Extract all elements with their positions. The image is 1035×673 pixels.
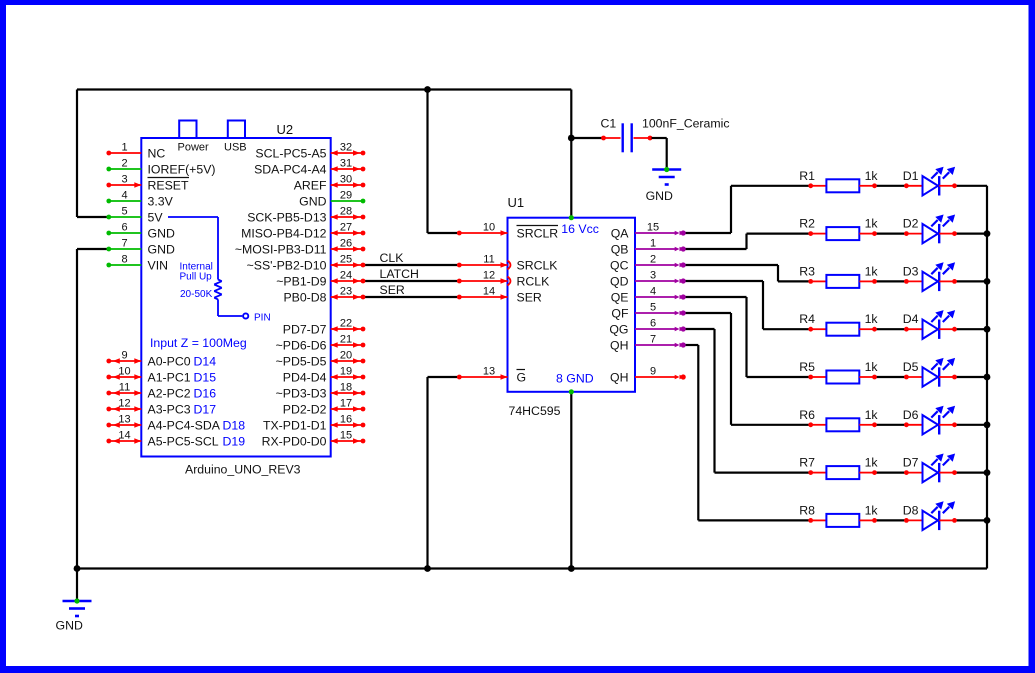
svg-text:D17: D17 xyxy=(194,403,217,417)
svg-text:QA: QA xyxy=(611,227,630,241)
svg-text:~MOSI-PB3-D11: ~MOSI-PB3-D11 xyxy=(235,243,327,257)
svg-text:USB: USB xyxy=(224,142,247,154)
U1 pin 2 QC output xyxy=(610,254,686,273)
junction right rail row 2 xyxy=(984,230,991,237)
svg-text:QH: QH xyxy=(610,371,628,385)
U2 pin 30 AREF xyxy=(294,174,366,193)
U2 pin 6 GND xyxy=(106,222,175,241)
svg-text:16 Vcc: 16 Vcc xyxy=(561,222,599,236)
svg-text:D7: D7 xyxy=(903,456,919,470)
U2 pin 11 A2-PC2 D16 xyxy=(106,382,216,401)
svg-text:D5: D5 xyxy=(903,360,919,374)
svg-text:9: 9 xyxy=(650,366,656,378)
svg-text:D16: D16 xyxy=(194,387,217,401)
wire net LATCH xyxy=(363,280,459,282)
wire GND bottom rail xyxy=(77,567,987,569)
svg-text:QB: QB xyxy=(611,243,629,257)
svg-text:QE: QE xyxy=(611,291,629,305)
U2 pin 4 3.3V xyxy=(106,190,173,209)
wire LED D1 cathode to right rail xyxy=(955,185,988,187)
svg-text:31: 31 xyxy=(340,158,352,170)
wire QC to LED row 3 xyxy=(683,265,811,281)
wire resistor R1 to LED D1 xyxy=(875,185,907,187)
svg-text:Input Z = 100Meg: Input Z = 100Meg xyxy=(150,336,247,350)
svg-text:SER: SER xyxy=(517,291,542,305)
svg-text:14: 14 xyxy=(483,286,495,298)
svg-text:QC: QC xyxy=(610,259,629,273)
svg-text:GND: GND xyxy=(299,195,326,209)
U2 internal pull-up resistor 20-50K and PIN xyxy=(168,217,271,324)
svg-text:21: 21 xyxy=(340,334,352,346)
svg-text:RESET: RESET xyxy=(148,179,189,193)
svg-text:9: 9 xyxy=(121,350,127,362)
svg-text:5: 5 xyxy=(650,302,656,314)
svg-text:RX-PD0-D0: RX-PD0-D0 xyxy=(262,435,327,449)
svg-text:GND: GND xyxy=(56,619,83,633)
junction right rail row 3 xyxy=(984,278,991,285)
svg-text:D15: D15 xyxy=(194,371,217,385)
svg-text:LATCH: LATCH xyxy=(380,267,419,281)
svg-text:20-50K: 20-50K xyxy=(180,289,213,300)
svg-text:7: 7 xyxy=(650,334,656,346)
svg-text:D18: D18 xyxy=(223,419,246,433)
U1 pin 14 SER xyxy=(457,286,542,305)
resistor R4 1k xyxy=(799,312,878,336)
wire 5V top rail horizontal xyxy=(77,88,571,90)
svg-text:19: 19 xyxy=(340,366,352,378)
U2 pin 21 ~PD6-D6 xyxy=(276,334,366,353)
U1 pin 11 SRCLK xyxy=(457,254,558,273)
svg-text:27: 27 xyxy=(340,222,352,234)
svg-text:PIN: PIN xyxy=(254,313,271,324)
svg-text:R8: R8 xyxy=(799,503,815,517)
svg-text:GND: GND xyxy=(646,189,673,203)
svg-text:U2: U2 xyxy=(277,122,294,137)
svg-text:1k: 1k xyxy=(865,217,879,231)
U2 pin 28 SCK-PB5-D13 xyxy=(247,206,365,225)
resistor R3 1k xyxy=(799,264,878,288)
wire C1 right lead to ground xyxy=(652,138,667,170)
wire 5V drop to C1 junction xyxy=(570,90,572,139)
resistor R5 1k xyxy=(799,360,878,384)
wire LED D7 cathode to right rail xyxy=(955,472,988,474)
svg-text:3.3V: 3.3V xyxy=(148,195,174,209)
svg-text:A1-PC1: A1-PC1 xyxy=(148,371,191,385)
svg-text:SCK-PB5-D13: SCK-PB5-D13 xyxy=(247,211,326,225)
wire resistor R6 to LED D6 xyxy=(875,424,907,426)
junction 5V top rail / SRCLR branch xyxy=(424,86,431,93)
svg-text:~PB1-D9: ~PB1-D9 xyxy=(276,275,326,289)
LED D2 xyxy=(903,215,957,244)
wire U1 pin 13 G to bottom rail xyxy=(428,377,460,569)
U2 pin 10 A1-PC1 D15 xyxy=(106,366,216,385)
svg-text:2: 2 xyxy=(121,158,127,170)
junction GND rail / U1 pin 8 branch xyxy=(568,565,575,572)
svg-text:IOREF(+5V): IOREF(+5V) xyxy=(148,163,216,177)
wire GND left vertical down xyxy=(76,249,78,569)
svg-text:32: 32 xyxy=(340,142,352,154)
wire 5V branch down to U1 pin 10 xyxy=(428,90,460,234)
svg-text:D8: D8 xyxy=(903,503,919,517)
wire QG to LED row 7 xyxy=(683,329,811,473)
svg-text:1k: 1k xyxy=(865,169,879,183)
U1 pin 13 G xyxy=(457,366,526,385)
wire QB to LED row 2 xyxy=(683,234,811,249)
svg-text:1k: 1k xyxy=(865,503,879,517)
junction right rail row 4 xyxy=(984,326,991,333)
U2 pin 7 GND xyxy=(106,238,175,257)
U2 pin 8 VIN xyxy=(106,254,168,273)
svg-text:VIN: VIN xyxy=(148,259,169,273)
svg-text:25: 25 xyxy=(340,254,352,266)
svg-text:D1: D1 xyxy=(903,169,919,183)
wire 5V left rail vertical xyxy=(76,90,78,218)
svg-text:A4-PC4-SDA: A4-PC4-SDA xyxy=(148,419,221,433)
svg-text:6: 6 xyxy=(650,318,656,330)
svg-text:D6: D6 xyxy=(903,408,919,422)
svg-text:SCL-PC5-A5: SCL-PC5-A5 xyxy=(255,147,326,161)
resistor R2 1k xyxy=(799,217,878,241)
U2 pin 14 A5-PC5-SCL D19 xyxy=(106,430,245,449)
wire net CLK xyxy=(363,264,459,266)
U2 pin 27 MISO-PB4-D12 xyxy=(241,222,365,241)
svg-text:PB0-D8: PB0-D8 xyxy=(283,291,326,305)
svg-text:24: 24 xyxy=(340,270,352,282)
svg-text:SER: SER xyxy=(380,283,405,297)
svg-text:30: 30 xyxy=(340,174,352,186)
U2 pin 20 ~PD5-D5 xyxy=(276,350,366,369)
wire LED D6 cathode to right rail xyxy=(955,424,988,426)
U1 pin 1 QB output xyxy=(611,238,686,257)
svg-text:QG: QG xyxy=(609,323,628,337)
IC U2 Arduino_UNO_REV3 body xyxy=(141,121,330,457)
LED D1 xyxy=(903,167,957,196)
svg-text:PD4-D4: PD4-D4 xyxy=(283,371,327,385)
U1 pin 3 QD output xyxy=(610,270,686,289)
U2 pin 25 ~SS'-PB2-D10 xyxy=(247,254,366,273)
svg-text:A3-PC3: A3-PC3 xyxy=(148,403,191,417)
svg-text:1k: 1k xyxy=(865,360,879,374)
svg-text:10: 10 xyxy=(118,366,130,378)
resistor R8 1k xyxy=(799,503,878,527)
svg-text:PD2-D2: PD2-D2 xyxy=(283,403,327,417)
U2 pin 13 A4-PC4-SDA D18 xyxy=(106,414,245,433)
svg-text:22: 22 xyxy=(340,318,352,330)
svg-text:R5: R5 xyxy=(799,360,815,374)
svg-text:15: 15 xyxy=(647,222,659,234)
svg-text:~PD3-D3: ~PD3-D3 xyxy=(276,387,327,401)
LED D6 xyxy=(903,406,957,435)
U1 pin 12 RCLK xyxy=(457,270,550,289)
U1 pin 6 QG output xyxy=(609,318,685,337)
U2 pin 24 ~PB1-D9 xyxy=(276,270,365,289)
svg-text:GND: GND xyxy=(148,227,175,241)
svg-text:SRCLR: SRCLR xyxy=(517,227,559,241)
U2 pin 17 PD2-D2 xyxy=(283,398,366,417)
svg-text:11: 11 xyxy=(119,382,130,394)
U2 pin 5 5V xyxy=(106,206,163,225)
svg-text:1k: 1k xyxy=(865,312,879,326)
junction right rail row 7 xyxy=(984,469,991,476)
svg-text:G: G xyxy=(517,371,527,385)
svg-text:AREF: AREF xyxy=(294,179,327,193)
wire resistor R5 to LED D5 xyxy=(875,376,907,378)
wire resistor R3 to LED D3 xyxy=(875,280,907,282)
junction right rail row 8 xyxy=(984,517,991,524)
svg-text:14: 14 xyxy=(118,430,130,442)
U2 pin 19 PD4-D4 xyxy=(283,366,366,385)
wire QF to LED row 6 xyxy=(683,313,811,425)
capacitor C1 100nF_Ceramic xyxy=(601,123,652,152)
ground symbol bottom left xyxy=(56,598,92,632)
svg-text:16: 16 xyxy=(340,414,352,426)
svg-text:R4: R4 xyxy=(799,312,815,326)
svg-text:13: 13 xyxy=(118,414,130,426)
svg-text:74HC595: 74HC595 xyxy=(509,404,561,418)
svg-text:10: 10 xyxy=(483,222,495,234)
junction right rail row 5 xyxy=(984,374,991,381)
wire resistor R7 to LED D7 xyxy=(875,472,907,474)
svg-text:1: 1 xyxy=(650,238,656,250)
svg-text:5V: 5V xyxy=(148,211,164,225)
svg-text:MISO-PB4-D12: MISO-PB4-D12 xyxy=(241,227,327,241)
svg-text:D4: D4 xyxy=(903,312,919,326)
junction 5V / C1 node xyxy=(568,135,575,142)
svg-text:28: 28 xyxy=(340,206,352,218)
U2 pin 22 PD7-D7 xyxy=(283,318,366,337)
svg-text:1k: 1k xyxy=(865,264,879,278)
wire resistor R4 to LED D4 xyxy=(875,328,907,330)
svg-text:12: 12 xyxy=(483,270,495,282)
U2 pin 29 GND xyxy=(299,190,365,209)
svg-text:D19: D19 xyxy=(223,435,246,449)
U2 pin 18 ~PD3-D3 xyxy=(276,382,366,401)
svg-text:7: 7 xyxy=(121,238,127,250)
svg-text:C1: C1 xyxy=(601,117,617,131)
U2 pin 1 NC xyxy=(106,142,165,161)
svg-text:29: 29 xyxy=(340,190,352,202)
svg-text:1: 1 xyxy=(121,142,127,154)
wire LED D2 cathode to right rail xyxy=(955,233,988,235)
wire LED D8 cathode to right rail xyxy=(955,519,988,521)
U2 pin 9 A0-PC0 D14 xyxy=(106,350,216,369)
svg-text:PD7-D7: PD7-D7 xyxy=(283,323,327,337)
wire QD to LED row 4 xyxy=(683,281,811,329)
svg-text:18: 18 xyxy=(340,382,352,394)
svg-text:4: 4 xyxy=(650,286,656,298)
wire QE to LED row 5 xyxy=(683,297,811,377)
svg-text:5: 5 xyxy=(121,206,127,218)
U1 pin 15 QA output xyxy=(611,222,686,241)
svg-text:R1: R1 xyxy=(799,169,815,183)
svg-text:D2: D2 xyxy=(903,217,919,231)
ground symbol at C1 xyxy=(646,167,682,203)
svg-text:15: 15 xyxy=(340,430,352,442)
svg-text:QH: QH xyxy=(610,339,628,353)
svg-text:R7: R7 xyxy=(799,456,815,470)
svg-text:TX-PD1-D1: TX-PD1-D1 xyxy=(263,419,327,433)
U1 pin 9 QH' serial out xyxy=(610,366,686,385)
wire LED D4 cathode to right rail xyxy=(955,328,988,330)
LED D7 xyxy=(903,454,957,483)
LED D5 xyxy=(903,358,957,387)
svg-text:CLK: CLK xyxy=(380,251,405,265)
wire GND from U2 pin 7 to left rail xyxy=(77,248,108,250)
svg-text:NC: NC xyxy=(148,147,166,161)
U2 pin 15 RX-PD0-D0 xyxy=(262,430,366,449)
wire QA to LED row 1 xyxy=(683,186,811,233)
wire GND stub to ground symbol xyxy=(76,569,78,602)
resistor R6 1k xyxy=(799,408,878,432)
svg-text:Pull Up: Pull Up xyxy=(180,272,213,283)
resistor R1 1k xyxy=(799,169,878,193)
svg-text:QD: QD xyxy=(610,275,629,289)
junction GND bottom-left xyxy=(74,565,81,572)
U2 pin 32 SCL-PC5-A5 xyxy=(255,142,365,161)
svg-text:13: 13 xyxy=(483,366,495,378)
svg-text:R2: R2 xyxy=(799,217,815,231)
U1 pin 7 QH output xyxy=(610,334,686,353)
junction GND rail / U1 pin 13 branch xyxy=(424,565,431,572)
wire LED D5 cathode to right rail xyxy=(955,376,988,378)
svg-text:R3: R3 xyxy=(799,264,815,278)
U2 pin 12 A3-PC3 D17 xyxy=(106,398,216,417)
wire GND right rail vertical xyxy=(986,186,988,569)
LED D4 xyxy=(903,310,957,339)
svg-text:SRCLK: SRCLK xyxy=(517,259,559,273)
U1 pin 10 SRCLR xyxy=(457,222,558,241)
junction right rail row 6 xyxy=(984,421,991,428)
wire net SER xyxy=(363,296,459,298)
svg-text:1k: 1k xyxy=(865,408,879,422)
svg-text:U1: U1 xyxy=(508,195,525,210)
svg-text:8 GND: 8 GND xyxy=(556,372,594,386)
svg-text:GND: GND xyxy=(148,243,175,257)
resistor R7 1k xyxy=(799,456,878,480)
svg-text:20: 20 xyxy=(340,350,352,362)
U1 pin 5 QF output xyxy=(611,302,685,321)
wire resistor R8 to LED D8 xyxy=(875,519,907,521)
svg-text:12: 12 xyxy=(118,398,130,410)
svg-text:Arduino_UNO_REV3: Arduino_UNO_REV3 xyxy=(185,463,301,477)
svg-text:D14: D14 xyxy=(194,355,217,369)
wire 5V junction to U1 Vcc pin 16 xyxy=(570,138,572,218)
svg-text:26: 26 xyxy=(340,238,352,250)
svg-text:~PD5-D5: ~PD5-D5 xyxy=(276,355,327,369)
U2 pin 23 PB0-D8 xyxy=(283,286,365,305)
svg-text:3: 3 xyxy=(121,174,127,186)
U2 pin 3 RESET xyxy=(106,174,189,193)
svg-text:SDA-PC4-A4: SDA-PC4-A4 xyxy=(254,163,327,177)
U2 pin 26 ~MOSI-PB3-D11 xyxy=(235,238,366,257)
svg-text:D3: D3 xyxy=(903,264,919,278)
svg-text:23: 23 xyxy=(340,286,352,298)
wire C1 left lead xyxy=(571,137,602,139)
svg-text:QF: QF xyxy=(611,307,629,321)
svg-text:4: 4 xyxy=(121,190,127,202)
svg-text:11: 11 xyxy=(483,254,494,266)
svg-text:RCLK: RCLK xyxy=(517,275,551,289)
wire LED D3 cathode to right rail xyxy=(955,280,988,282)
svg-text:~SS'-PB2-D10: ~SS'-PB2-D10 xyxy=(247,259,327,273)
svg-text:A0-PC0: A0-PC0 xyxy=(148,355,191,369)
IC U1 74HC595 body xyxy=(508,218,636,392)
U1 pin 4 QE output xyxy=(611,286,686,305)
svg-text:8: 8 xyxy=(121,254,127,266)
U1 pin 8 GND xyxy=(556,372,594,395)
svg-text:2: 2 xyxy=(650,254,656,266)
svg-text:A2-PC2: A2-PC2 xyxy=(148,387,191,401)
LED D3 xyxy=(903,262,957,291)
wire QH to LED row 8 xyxy=(683,345,811,520)
svg-text:A5-PC5-SCL: A5-PC5-SCL xyxy=(148,435,219,449)
svg-text:1k: 1k xyxy=(865,456,879,470)
svg-text:6: 6 xyxy=(121,222,127,234)
U2 pin 16 TX-PD1-D1 xyxy=(263,414,365,433)
LED D8 xyxy=(903,501,957,530)
wire U1 GND pin 8 down to rail xyxy=(570,392,572,569)
U1 pin 16 Vcc xyxy=(561,215,599,236)
svg-text:17: 17 xyxy=(340,398,352,410)
U2 pin 31 SDA-PC4-A4 xyxy=(254,158,365,177)
wire resistor R2 to LED D2 xyxy=(875,233,907,235)
svg-text:R6: R6 xyxy=(799,408,815,422)
svg-text:3: 3 xyxy=(650,270,656,282)
svg-text:100nF_Ceramic: 100nF_Ceramic xyxy=(642,117,729,131)
wire 5V from U2 pin 5 to left rail xyxy=(77,216,108,218)
svg-text:~PD6-D6: ~PD6-D6 xyxy=(276,339,327,353)
U2 pin 2 IOREF(+5V) xyxy=(106,158,215,177)
svg-text:Power: Power xyxy=(178,142,210,154)
